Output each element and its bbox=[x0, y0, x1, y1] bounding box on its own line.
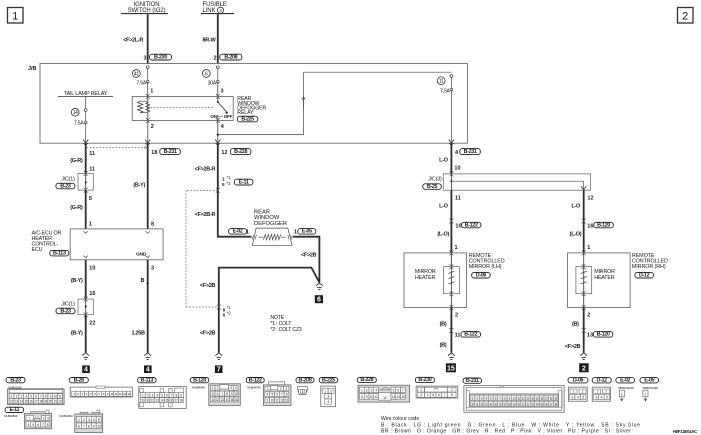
svg-text:B-228: B-228 bbox=[360, 377, 373, 383]
svg-text:13: 13 bbox=[285, 399, 288, 403]
svg-text:7.5A: 7.5A bbox=[74, 121, 84, 127]
svg-text:J/B: J/B bbox=[28, 66, 37, 72]
relay pin 4 wire and junction bbox=[217, 121, 219, 144]
svg-text:MU801840: MU801840 bbox=[60, 414, 74, 418]
svg-text:B: B bbox=[141, 278, 145, 284]
svg-text:B-230: B-230 bbox=[418, 377, 431, 383]
svg-text:D-12: D-12 bbox=[639, 273, 650, 279]
J/B exit arrow mirror feed wire bbox=[449, 140, 454, 144]
fuse 41 7.5A bbox=[147, 67, 149, 82]
relay actuation dashed link bbox=[151, 106, 214, 108]
svg-text:15: 15 bbox=[401, 395, 404, 399]
svg-text:41: 41 bbox=[134, 71, 139, 77]
wire RH mirror ground bbox=[583, 307, 585, 352]
svg-text:E-05: E-05 bbox=[644, 378, 654, 384]
svg-text:2: 2 bbox=[587, 313, 590, 319]
wire J/C(1) to ECU pin 1 bbox=[85, 190, 87, 229]
svg-text:1: 1 bbox=[455, 245, 458, 251]
wire B-Y relay pin2 to ECU pin 8 bbox=[147, 143, 149, 229]
dashed variant link at J/B exit bbox=[87, 146, 145, 148]
svg-text:E-02: E-02 bbox=[620, 378, 630, 384]
svg-text:18: 18 bbox=[180, 399, 183, 403]
svg-text:12: 12 bbox=[280, 399, 283, 403]
svg-text:11: 11 bbox=[89, 151, 95, 157]
svg-text:D-06: D-06 bbox=[573, 378, 584, 384]
connector B-230 pinout bbox=[415, 377, 434, 382]
svg-text:6: 6 bbox=[317, 297, 321, 304]
svg-text:12: 12 bbox=[383, 396, 387, 400]
svg-text:RELAY: RELAY bbox=[237, 110, 254, 116]
svg-text:HEATER: HEATER bbox=[415, 275, 436, 281]
ground LH mirror bbox=[448, 353, 455, 356]
connector pass-through pins 8/6 bbox=[217, 305, 221, 310]
svg-text:DEFOGGER: DEFOGGER bbox=[254, 221, 287, 227]
svg-text:8: 8 bbox=[151, 221, 154, 227]
svg-text:22: 22 bbox=[89, 321, 95, 327]
svg-text:16: 16 bbox=[89, 291, 95, 297]
svg-text:5: 5 bbox=[222, 182, 225, 187]
svg-text:TAIL LAMP RELAY: TAIL LAMP RELAY bbox=[64, 91, 108, 97]
connector B-26 pinout bbox=[69, 378, 88, 383]
svg-text:13: 13 bbox=[587, 333, 593, 339]
connector E-11 pinout bbox=[5, 407, 24, 412]
svg-text:B-208: B-208 bbox=[299, 377, 312, 383]
remote controlled mirror RH with heater D-12 bbox=[568, 253, 631, 308]
wire LH mirror ground bbox=[450, 307, 452, 352]
junction block J/B bbox=[40, 64, 468, 144]
ground ref box 4 left bbox=[82, 365, 90, 373]
connector D-12 pinout bbox=[592, 378, 611, 383]
svg-text:13: 13 bbox=[392, 395, 395, 399]
J/B exit arrow relay pin4 wire bbox=[215, 140, 220, 144]
fuse 6 30A bbox=[217, 67, 219, 82]
svg-text:L-O: L-O bbox=[571, 204, 581, 210]
svg-text:19: 19 bbox=[44, 400, 47, 404]
svg-text:<F>2B-R: <F>2B-R bbox=[195, 167, 216, 173]
svg-text:*2: *2 bbox=[226, 181, 231, 186]
svg-text:*1: *1 bbox=[46, 409, 51, 414]
page number box 2 bbox=[678, 8, 694, 24]
svg-text:B-113: B-113 bbox=[53, 251, 66, 257]
ground RH mirror bbox=[580, 353, 587, 356]
svg-text:B-113: B-113 bbox=[141, 377, 154, 383]
svg-text:<F>2B: <F>2B bbox=[301, 253, 317, 259]
svg-text:(B-Y): (B-Y) bbox=[71, 278, 83, 284]
svg-text:1: 1 bbox=[222, 177, 225, 182]
svg-text:8R-W: 8R-W bbox=[203, 38, 217, 44]
svg-text:14: 14 bbox=[160, 399, 163, 403]
wire defogger to ground 6 bbox=[293, 237, 320, 283]
svg-text:10: 10 bbox=[54, 395, 57, 399]
svg-text:<F>2B: <F>2B bbox=[200, 283, 216, 289]
svg-text:22: 22 bbox=[59, 400, 62, 404]
dashed alternate route COLT CZ3 bbox=[186, 189, 218, 191]
svg-text:*2 : COLT CZ3: *2 : COLT CZ3 bbox=[270, 327, 302, 333]
connector B-228 pinout bbox=[357, 377, 376, 382]
svg-text:(B-Y): (B-Y) bbox=[133, 182, 145, 188]
svg-text:B-120: B-120 bbox=[193, 377, 206, 383]
svg-text:14: 14 bbox=[225, 398, 228, 402]
wire ECU pin3 GND to ground bbox=[147, 260, 149, 353]
svg-text:*1: *1 bbox=[227, 305, 232, 310]
svg-text:<F>2B: <F>2B bbox=[565, 344, 581, 350]
svg-text:17: 17 bbox=[175, 399, 178, 403]
svg-text:<F>2B-R: <F>2B-R bbox=[195, 212, 216, 218]
svg-text:B-120: B-120 bbox=[597, 222, 610, 228]
svg-text:12: 12 bbox=[587, 196, 593, 202]
fuse 11 7.5A bbox=[450, 76, 452, 90]
svg-text:15: 15 bbox=[165, 399, 168, 403]
ground ref box 7 bbox=[215, 365, 223, 373]
svg-text:13: 13 bbox=[156, 399, 159, 403]
svg-text:11: 11 bbox=[455, 196, 461, 202]
svg-text:1: 1 bbox=[89, 221, 92, 227]
svg-text:10: 10 bbox=[89, 265, 95, 271]
svg-text:2: 2 bbox=[455, 313, 458, 319]
rear window defogger element bbox=[252, 228, 292, 245]
svg-text:12: 12 bbox=[221, 150, 227, 156]
svg-text:B-208: B-208 bbox=[224, 55, 237, 61]
svg-text:J/C(1): J/C(1) bbox=[61, 302, 75, 308]
svg-text:1: 1 bbox=[587, 245, 590, 251]
wire fuse41 to relay pin1 bbox=[147, 82, 149, 97]
J/B exit arrow tail lamp wire bbox=[83, 140, 88, 144]
svg-text:B-122: B-122 bbox=[464, 332, 477, 338]
svg-text:B-25: B-25 bbox=[427, 184, 438, 190]
svg-text:18: 18 bbox=[39, 400, 42, 404]
svg-text:Wire colour code: Wire colour code bbox=[381, 416, 419, 422]
svg-text:10: 10 bbox=[235, 392, 238, 396]
svg-text:1: 1 bbox=[150, 89, 153, 95]
svg-text:2: 2 bbox=[151, 124, 154, 130]
svg-text:15: 15 bbox=[447, 366, 455, 373]
joint connector J/C(3) B-25 bbox=[443, 174, 590, 190]
connector B-122 pinout bbox=[246, 378, 264, 383]
svg-text:<F>2B: <F>2B bbox=[200, 330, 216, 336]
svg-text:ECU: ECU bbox=[32, 247, 43, 253]
svg-text:20: 20 bbox=[49, 400, 52, 404]
svg-text:7.5A: 7.5A bbox=[137, 80, 147, 86]
connector B-23 pinout bbox=[6, 378, 25, 383]
J/B exit arrow relay pin2 wire bbox=[145, 140, 150, 144]
wire fusible link feed 8R-W bbox=[217, 14, 219, 63]
svg-text:6: 6 bbox=[223, 313, 226, 318]
svg-text:B-225: B-225 bbox=[241, 116, 254, 122]
svg-text:12: 12 bbox=[10, 400, 13, 404]
svg-text:B-122: B-122 bbox=[249, 377, 262, 383]
ECU pin marks bbox=[84, 231, 88, 233]
A/C-ECU or heater control ECU box B-113 bbox=[70, 229, 163, 260]
svg-text:7: 7 bbox=[217, 366, 221, 373]
svg-text:L-O: L-O bbox=[439, 204, 449, 210]
svg-text:4: 4 bbox=[146, 366, 150, 373]
joint connector J/C(1) B-23 upper bbox=[78, 174, 93, 191]
svg-text:*1: *1 bbox=[226, 175, 231, 180]
svg-text:10: 10 bbox=[271, 399, 274, 403]
svg-text:11: 11 bbox=[455, 333, 461, 339]
svg-text:14: 14 bbox=[397, 395, 400, 399]
svg-text:1: 1 bbox=[294, 229, 297, 235]
svg-text:12: 12 bbox=[151, 399, 154, 403]
svg-text:16: 16 bbox=[30, 400, 33, 404]
svg-text:ON: ON bbox=[210, 114, 217, 119]
ground tail lamp circuit bbox=[82, 353, 89, 356]
wire relay pin4 loop through fuse 11 bbox=[218, 134, 304, 136]
svg-text:E-11: E-11 bbox=[239, 180, 249, 186]
svg-text:10: 10 bbox=[97, 424, 100, 428]
svg-text:13: 13 bbox=[221, 398, 224, 402]
svg-text:B-231: B-231 bbox=[464, 149, 477, 155]
svg-text:B-120: B-120 bbox=[597, 332, 610, 338]
svg-text:J/C(1): J/C(1) bbox=[61, 177, 75, 183]
svg-text:B-231: B-231 bbox=[164, 149, 177, 155]
svg-text:L-O: L-O bbox=[439, 158, 449, 164]
ground ref box 4 middle bbox=[144, 365, 152, 373]
connector B-225 pinout bbox=[319, 378, 338, 383]
relay pin 2 bbox=[147, 121, 149, 144]
svg-text:(G-R): (G-R) bbox=[70, 158, 83, 164]
svg-text:5: 5 bbox=[89, 196, 92, 202]
svg-text:1: 1 bbox=[246, 229, 249, 235]
svg-text:10: 10 bbox=[454, 166, 460, 172]
ground 6 rear window bbox=[316, 283, 323, 286]
wire J/C(1) lower to ground bbox=[85, 315, 87, 353]
svg-text:E-02: E-02 bbox=[233, 229, 243, 235]
svg-text:1: 1 bbox=[645, 392, 647, 396]
svg-text:B-23: B-23 bbox=[10, 377, 21, 383]
svg-text:1.25B: 1.25B bbox=[132, 330, 146, 336]
svg-text:30A: 30A bbox=[208, 80, 217, 86]
svg-text:B-225: B-225 bbox=[322, 377, 335, 383]
svg-text:18: 18 bbox=[151, 150, 157, 156]
svg-text:H8F13E04AC: H8F13E04AC bbox=[673, 429, 697, 434]
svg-text:10: 10 bbox=[455, 223, 461, 229]
svg-text:(B): (B) bbox=[572, 322, 579, 328]
svg-text:1: 1 bbox=[12, 11, 18, 23]
svg-text:11: 11 bbox=[439, 79, 444, 85]
svg-text:3: 3 bbox=[143, 55, 146, 61]
svg-text:12: 12 bbox=[216, 398, 219, 402]
svg-text:3: 3 bbox=[151, 265, 154, 271]
svg-text:7.5A: 7.5A bbox=[440, 89, 450, 95]
wire L-O to RH mirror bbox=[583, 190, 585, 253]
svg-text:GND: GND bbox=[136, 251, 147, 257]
fuse 14 7.5A tail lamp circuit bbox=[85, 96, 87, 109]
svg-text:(L-O): (L-O) bbox=[570, 231, 582, 237]
svg-text:D-06: D-06 bbox=[476, 273, 487, 279]
connector E-02 pinout bbox=[616, 378, 635, 383]
connector D-06 pinout bbox=[568, 378, 588, 383]
svg-text:*2: *2 bbox=[227, 311, 232, 316]
svg-text:MIRROR (LH): MIRROR (LH) bbox=[469, 264, 502, 270]
svg-text:BR : Brown O : Orange GR :: BR : Brown O : Orange GR : Grey R : Red … bbox=[381, 429, 631, 435]
svg-text:(L-O): (L-O) bbox=[437, 231, 449, 237]
connector B-231 pinout bbox=[463, 378, 482, 383]
svg-text:14: 14 bbox=[73, 110, 78, 116]
wire bend to defogger E-02 bbox=[218, 235, 252, 238]
svg-text:J/C(3): J/C(3) bbox=[428, 177, 442, 183]
svg-text:D-12: D-12 bbox=[597, 378, 608, 384]
svg-text:B-23: B-23 bbox=[60, 308, 71, 314]
svg-text:16: 16 bbox=[587, 223, 593, 229]
wire 2B return to body ground 7 bbox=[219, 268, 320, 353]
wire fuse11 to J/B exit bbox=[450, 90, 452, 143]
svg-text:(B-Y): (B-Y) bbox=[71, 330, 83, 336]
svg-text:16: 16 bbox=[235, 398, 238, 402]
wire L-O fuse11 to J/C(3) bbox=[450, 143, 452, 174]
ground defogger feed bbox=[215, 353, 222, 356]
wire L-O to LH mirror bbox=[450, 190, 452, 253]
rear window defogger relay box B-225 bbox=[132, 97, 233, 121]
svg-text:2: 2 bbox=[682, 11, 688, 23]
svg-text:MU801839: MU801839 bbox=[4, 414, 18, 418]
svg-text:17: 17 bbox=[34, 400, 37, 404]
wire ECU pin10 B-Y down bbox=[85, 260, 87, 299]
wire fuse14 to J/B exit bbox=[85, 123, 87, 144]
svg-text:OFF: OFF bbox=[224, 114, 233, 119]
svg-text:<F>2L-R: <F>2L-R bbox=[123, 38, 143, 44]
remote controlled mirror LH with heater D-06 bbox=[404, 253, 467, 308]
svg-text:2: 2 bbox=[582, 366, 586, 373]
connector B-120 pinout bbox=[190, 378, 209, 383]
svg-text:15: 15 bbox=[230, 398, 233, 402]
wire ignition switch feed 2L-R bbox=[147, 14, 149, 63]
wire G-R tail lamp relay to A/C-ECU bbox=[85, 143, 87, 173]
svg-text:08MR0121(B): 08MR0121(B) bbox=[643, 386, 658, 390]
svg-text:10: 10 bbox=[141, 399, 144, 403]
svg-text:E-11: E-11 bbox=[9, 407, 19, 413]
svg-text:B-26: B-26 bbox=[74, 377, 85, 383]
svg-text:16: 16 bbox=[170, 399, 173, 403]
svg-text:B-231: B-231 bbox=[466, 378, 479, 384]
joint connector J/C(1) B-23 lower bbox=[78, 299, 93, 315]
svg-text:MIRROR (RH): MIRROR (RH) bbox=[632, 264, 666, 270]
svg-text:B-230: B-230 bbox=[154, 55, 167, 61]
relay switch contact ON/OFF bbox=[217, 97, 219, 103]
svg-text:2: 2 bbox=[213, 55, 216, 61]
svg-text:13: 13 bbox=[15, 400, 18, 404]
svg-text:10: 10 bbox=[370, 395, 373, 399]
svg-text:E-05: E-05 bbox=[302, 229, 312, 235]
svg-text:4: 4 bbox=[84, 366, 88, 373]
svg-text:HEATER: HEATER bbox=[594, 275, 615, 281]
connector B-208 pinout bbox=[296, 378, 314, 383]
svg-text:14: 14 bbox=[20, 400, 23, 404]
page number box 1 bbox=[8, 8, 24, 24]
svg-text:MU804789: MU804789 bbox=[247, 385, 261, 389]
svg-text:08MR0121(B): 08MR0121(B) bbox=[618, 386, 633, 390]
svg-text:1: 1 bbox=[621, 392, 623, 396]
svg-text:11: 11 bbox=[89, 166, 95, 172]
svg-text:8: 8 bbox=[223, 307, 226, 312]
svg-text:15: 15 bbox=[25, 400, 28, 404]
svg-text:(B): (B) bbox=[440, 343, 447, 349]
relay coil bbox=[147, 97, 149, 121]
ground ECU circuit bbox=[144, 353, 151, 356]
connector B-113 pinout bbox=[138, 378, 157, 383]
svg-text:MU804846: MU804846 bbox=[192, 385, 206, 389]
svg-text:(B): (B) bbox=[440, 322, 447, 328]
svg-text:(G-R): (G-R) bbox=[70, 205, 83, 211]
svg-text:B-23: B-23 bbox=[60, 183, 71, 189]
wire fuse6 to relay pin3 bbox=[217, 82, 219, 97]
svg-text:21: 21 bbox=[54, 400, 57, 404]
svg-text:B-228: B-228 bbox=[234, 149, 247, 155]
connector E-05 pinout bbox=[640, 378, 659, 383]
svg-text:3: 3 bbox=[221, 89, 224, 95]
svg-text:B-122: B-122 bbox=[465, 222, 478, 228]
wire 2B-R relay pin4 to defogger bbox=[217, 143, 219, 237]
